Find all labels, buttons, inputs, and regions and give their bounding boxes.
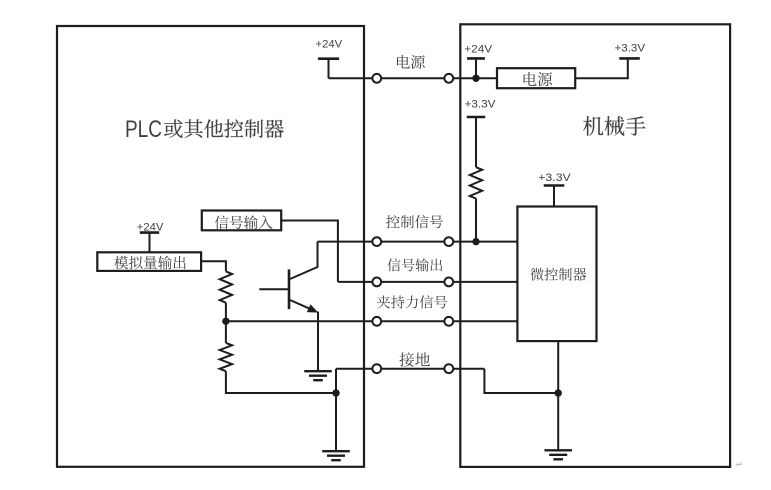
junction dot: control node [472,238,479,245]
wire: 控制信号 row [318,241,519,243]
wire: divider tap down [225,321,227,343]
terminal circle: 电源 right [444,74,453,83]
+3.3V supply symbol left column [467,116,485,119]
wire: 电源 net row [329,77,498,79]
wire: 接地 row [336,368,484,370]
transistor Q1 collector wire [290,242,318,279]
power module box 电源 [497,68,575,88]
wire: 夹持力信号 row [226,320,519,322]
terminal circle: 接地 left [372,364,381,373]
ground symbol (left box bottom) [322,450,350,452]
terminal circle: 电源 left [372,74,381,83]
svg-text:↵: ↵ [736,460,743,469]
label: 电源 module [524,72,553,86]
ground symbol (emitter) [304,370,332,372]
label: 模拟量输出 [114,256,185,270]
svg-text:+3.3V: +3.3V [538,172,571,184]
transistor Q1 base bar [288,269,291,309]
resistor R2 (lower divider) [220,343,232,371]
label: 接地 [399,352,429,367]
junction dot: left ground node [332,389,339,396]
wire: down to ground [335,393,337,451]
+3.3V supply symbol top-right [619,57,640,60]
wire: 信号输出 row [338,281,519,283]
label: 机械手 [583,116,645,136]
wire R3 to control node [475,199,477,242]
label: 信号输入 [215,215,273,229]
label: 信号输出 [387,258,442,271]
label: PLC或其他控制器 [125,116,284,143]
label: 控制信号 [386,215,443,228]
wire: left ground riser [335,369,337,393]
terminal circle: 夹持力信号 right [444,317,453,326]
microcontroller box 微控制器 [517,207,596,342]
label: 微控制器 [530,268,586,281]
transistor Q1 emitter with arrow [290,300,315,311]
junction dot: right ground node [555,389,562,396]
terminal circle: 控制信号 right [444,237,453,246]
信号输入 block [202,211,281,231]
wire R2 bottom [225,371,227,394]
ground symbol (right box) [545,449,573,451]
terminal circle: 信号输出 left [372,278,381,287]
+3.3V supply symbol above MCU [544,184,565,187]
resistor R1 (upper divider) [220,271,232,302]
robot hand enclosure box [460,24,730,467]
svg-text:+3.3V: +3.3V [465,99,497,111]
terminal circle: 夹持力信号 left [372,317,381,326]
svg-text:+3.3V: +3.3V [615,43,646,55]
PLC controller enclosure box [57,26,364,467]
wire: 信号输入 to 信号输出 terminal [281,221,338,282]
svg-text:+24V: +24V [316,39,343,51]
wire: 电源 box to +3.3V [575,58,628,78]
resistor R3 pull-up [470,167,482,198]
+24V supply symbol above 模拟量输出 [140,231,159,234]
terminal circle: 控制信号 left [372,237,381,246]
junction dot: divider tap [222,318,229,325]
svg-text:PLC: PLC [125,116,162,143]
wire: emitter to ground [317,312,319,372]
wire: 接地 into right box [484,369,558,393]
transistor Q1 base lead [259,288,290,290]
net label: 电源 [397,55,425,69]
wire: MCU ground stem [557,341,559,450]
junction dot: +24V node [472,75,479,82]
+24V supply symbol right box [467,57,485,60]
wire R1 to junction [225,303,227,322]
svg-text:+24V: +24V [137,221,164,233]
模拟量输出 block [97,252,201,271]
wire: 模拟量输出 to divider [201,261,226,271]
+24V supply symbol top-left [318,57,339,60]
svg-text:+24V: +24V [464,44,493,56]
label: 夹持力信号 [377,295,447,308]
terminal circle: 接地 right [444,364,453,373]
wire: divider bottom to ground junction [226,392,337,394]
terminal circle: 信号输出 right [444,278,453,287]
